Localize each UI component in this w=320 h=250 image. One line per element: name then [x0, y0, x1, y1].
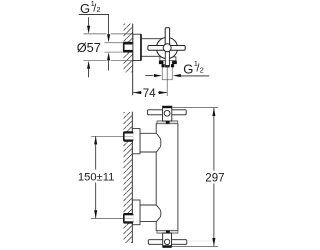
svg-text:74: 74: [143, 88, 156, 100]
svg-text:G: G: [183, 62, 193, 77]
svg-text:Ø: Ø: [77, 40, 87, 55]
svg-text:57: 57: [87, 40, 101, 55]
svg-text:2: 2: [200, 66, 204, 75]
svg-text:150±11: 150±11: [78, 172, 114, 184]
svg-text:2: 2: [96, 5, 100, 14]
svg-text:297: 297: [205, 173, 224, 185]
